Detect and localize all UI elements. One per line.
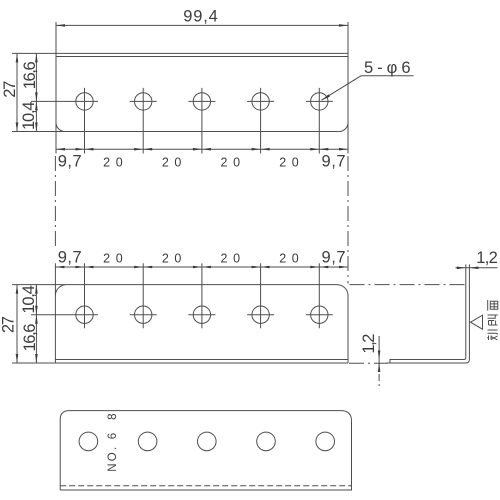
note 刻印面 (marking surface, drawn strokes, rotated): [487, 300, 498, 340]
top view plate outline: [12, 22, 348, 154]
svg-text:5-φ6: 5-φ6: [364, 59, 411, 77]
centerline horizontal to side view: [350, 284, 466, 286]
centerline stub at bend (bottom right of second view): [349, 362, 388, 364]
dimension 1,2 (plate thickness, bottom of second view): [360, 334, 380, 389]
svg-text:1,2: 1,2: [476, 249, 498, 267]
hole H8 (second view): [188, 263, 215, 328]
svg-text:27: 27: [1, 81, 19, 98]
svg-text:9,7: 9,7: [322, 248, 346, 266]
hole H1 (top view): [76, 88, 93, 154]
dimension 27 (top view): [1, 53, 19, 131]
surface mark triangle (marking surface): [471, 315, 483, 329]
svg-text:27: 27: [0, 316, 18, 333]
char 印 (middle): [488, 315, 498, 325]
svg-text:16,6: 16,6: [21, 61, 39, 89]
svg-text:99,4: 99,4: [183, 7, 218, 25]
hole H11 (bottom view): [79, 432, 98, 451]
hole H14 (bottom view): [257, 432, 276, 451]
hole H15 (bottom view): [316, 432, 335, 451]
bottom view plate outline: [60, 411, 351, 490]
hole centerline (second view, through hole 1): [31, 314, 98, 316]
svg-text:10,4: 10,4: [20, 101, 38, 130]
svg-text:NO. 6 8: NO. 6 8: [107, 411, 119, 471]
centerline left (between views): [54, 156, 56, 246]
svg-text:16,6: 16,6: [21, 324, 39, 352]
centerline right (between views): [347, 156, 349, 284]
leader 5-phi6: [322, 59, 414, 100]
second view plate outline: [12, 263, 348, 363]
bottom dimension chain of top view: 9,7 / 20 x4 / 9,7: [56, 148, 348, 171]
top dimension chain of second view: 9,7 / 20 x4 / 9,7: [55, 248, 348, 268]
hole H7 (second view): [130, 263, 157, 328]
dimension 27 (second view): [0, 285, 18, 363]
dimension 10,4 / 16,6 (second view): [20, 285, 39, 363]
side view wall outline: [386, 264, 469, 363]
char 刻 (bottom): [487, 330, 497, 340]
svg-text:9,7: 9,7: [322, 153, 346, 171]
hole H10 (second view): [306, 263, 333, 328]
dimension 1,2 (wall thickness, side view): [456, 249, 498, 269]
svg-text:9,7: 9,7: [58, 248, 82, 266]
char 面 (top): [488, 300, 498, 311]
svg-text:1,2: 1,2: [360, 334, 378, 354]
hole H9 (second view): [247, 263, 274, 328]
svg-text:10,4: 10,4: [20, 285, 38, 314]
hole H3 (top view): [188, 88, 215, 154]
hole H12 (bottom view): [138, 432, 157, 451]
bend line (bottom view, dashed): [60, 485, 351, 487]
hole H2 (top view): [130, 88, 157, 154]
hole centerline (top view, through hole 1): [31, 100, 98, 102]
hole H6 (second view): [76, 263, 93, 328]
dimension 99,4: [56, 7, 348, 26]
dimension 16,6 / 10,4 (top view): [20, 53, 39, 131]
hole H4 (top view): [247, 88, 274, 154]
hole H13 (bottom view): [198, 432, 217, 451]
hole H5 (top view): [306, 88, 333, 154]
svg-text:9,7: 9,7: [58, 153, 82, 171]
